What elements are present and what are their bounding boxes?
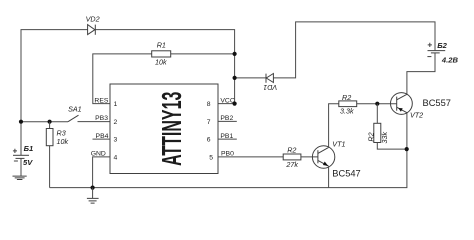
switch SA1 [68,115,110,122]
svg-text:3: 3 [114,137,118,144]
svg-text:PB1: PB1 [220,133,233,140]
node dot VCC pin [233,102,237,106]
svg-text:VT2: VT2 [410,111,423,120]
wire B2 minus to VT2 collector [407,53,435,95]
svg-text:4.2В: 4.2В [441,56,459,65]
pin 6 PB1 stub [218,138,237,140]
wire down to R2 33k [376,104,378,124]
svg-text:VD2: VD2 [86,14,100,23]
svg-text:33k: 33k [380,132,389,144]
svg-text:R2: R2 [342,93,351,102]
svg-text:SA1: SA1 [68,105,82,114]
node dot left rail / SA1 [19,120,23,124]
ground under B1 [13,176,27,179]
wire R2 33k to emitter junction [377,143,406,150]
pin 3 PB4 stub [93,138,111,140]
transistor VT2 BC557 [391,93,413,115]
resistor R2 (33k) vertical [374,123,381,142]
svg-text:6: 6 [207,137,211,144]
svg-text:10k: 10k [57,137,69,146]
node dot SA1 wire / R3 [48,120,52,124]
resistor R2 (3.3k) [339,101,357,107]
ground symbol on rail [87,188,99,204]
node dot GND/rail [91,186,95,190]
svg-text:5: 5 [209,155,213,162]
wire R2 to VT1 base [301,156,318,158]
resistor R3 branch wire [49,122,51,188]
svg-text:4: 4 [114,155,118,162]
pin 4 GND wire to ground rail [93,157,110,188]
wire R2 3.3k to VT2 base [357,103,397,105]
svg-text:R1: R1 [157,40,166,49]
wire VD1 branch to top right and battery B2 [235,22,435,78]
svg-text:R2: R2 [287,145,296,154]
node dot VT2 emitter junction [405,147,409,151]
svg-text:Б2: Б2 [437,41,447,50]
svg-text:8: 8 [207,101,211,108]
svg-text:BC557: BC557 [423,98,451,108]
svg-text:Б1: Б1 [24,144,34,153]
node dot R1/VCC column [233,52,237,56]
battery B1 [13,149,29,176]
svg-text:PB0: PB0 [221,151,234,158]
node dot VD1/VCC column [233,76,237,80]
pin 7 PB2 stub [218,120,237,122]
wire VT1 emitter down to rail [328,166,330,187]
svg-text:VT1: VT1 [332,139,345,148]
svg-text:1: 1 [114,101,118,108]
svg-text:BC547: BC547 [332,168,360,178]
svg-text:PB4: PB4 [96,133,109,140]
wire left vertical + top rail to VCC node column [21,30,235,155]
wire SA1 feed from left rail [21,121,68,123]
svg-text:RES: RES [94,97,108,104]
svg-text:27k: 27k [285,160,298,169]
svg-text:GND: GND [91,151,106,158]
node dot base/R2 33k [375,102,379,106]
svg-text:3.3k: 3.3k [340,106,354,115]
resistor R1 [152,51,171,57]
wire VCC pin stub [218,103,235,105]
wire VT2 emitter down and ground rail [50,113,407,188]
resistor R2 (27k) [283,154,301,160]
transistor VT1 BC547 [312,146,334,168]
pin 5 PB0 wire to R2 [218,156,283,158]
svg-text:ATTINY13: ATTINY13 [155,92,187,166]
svg-text:5V: 5V [23,158,33,167]
svg-text:PB2: PB2 [220,115,233,122]
svg-text:PB3: PB3 [95,115,108,122]
diode VD2 [88,25,96,35]
battery B2 [427,43,445,57]
svg-text:VCC: VCC [220,97,234,104]
svg-text:R2: R2 [366,132,375,141]
resistor R3 [46,129,53,146]
svg-text:2: 2 [114,119,118,126]
svg-text:7: 7 [207,119,211,126]
diode VD1 [266,74,273,83]
svg-text:VD1: VD1 [263,83,277,92]
wire VT1 collector up to R2 3.3k [329,104,339,148]
svg-text:10k: 10k [155,58,167,67]
IC U1 ATTINY13 body [110,84,218,174]
wire RES to R1 to VCC column [93,54,235,104]
